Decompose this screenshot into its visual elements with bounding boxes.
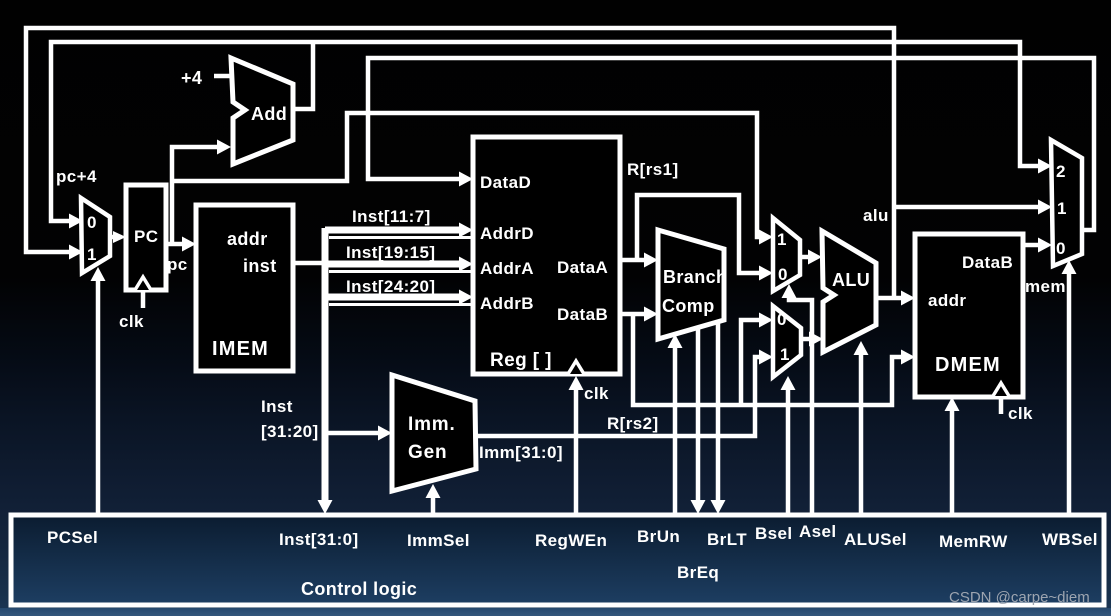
svg-text:Inst[11:7]: Inst[11:7]: [352, 207, 431, 226]
svg-text:ALUSel: ALUSel: [844, 530, 907, 549]
svg-text:PC: PC: [134, 227, 158, 246]
svg-text:BrLT: BrLT: [707, 530, 747, 549]
svg-text:0: 0: [87, 213, 97, 232]
svg-text:Add: Add: [251, 104, 287, 124]
svg-text:PCSel: PCSel: [47, 528, 98, 547]
svg-text:2: 2: [1056, 162, 1066, 181]
svg-text:Imm.: Imm.: [408, 414, 456, 435]
svg-text:clk: clk: [1008, 404, 1033, 423]
svg-text:pc+4: pc+4: [56, 167, 97, 186]
svg-text:1: 1: [1057, 199, 1067, 218]
svg-text:Gen: Gen: [408, 442, 447, 463]
svg-text:AddrD: AddrD: [480, 224, 534, 243]
svg-text:Asel: Asel: [799, 522, 837, 541]
svg-text:addr: addr: [928, 291, 966, 310]
svg-text:mem: mem: [1025, 277, 1066, 296]
svg-text:addr: addr: [227, 229, 268, 249]
svg-text:ALU: ALU: [832, 270, 870, 290]
svg-text:clk: clk: [119, 312, 144, 331]
svg-text:1: 1: [87, 245, 97, 264]
svg-text:BrUn: BrUn: [637, 527, 680, 546]
svg-text:Inst: Inst: [261, 397, 293, 416]
svg-text:RegWEn: RegWEn: [535, 531, 607, 550]
svg-text:R[rs2]: R[rs2]: [607, 414, 659, 433]
svg-text:Comp: Comp: [662, 296, 715, 316]
svg-text:[31:20]: [31:20]: [261, 422, 319, 441]
svg-text:alu: alu: [863, 206, 889, 225]
svg-text:clk: clk: [584, 384, 609, 403]
svg-text:Branch: Branch: [663, 267, 727, 287]
svg-text:+4: +4: [181, 68, 202, 88]
svg-text:Control logic: Control logic: [301, 579, 417, 599]
svg-text:pc: pc: [167, 255, 188, 274]
svg-text:ImmSel: ImmSel: [407, 531, 470, 550]
svg-text:Imm[31:0]: Imm[31:0]: [479, 443, 563, 462]
svg-text:DataD: DataD: [480, 173, 531, 192]
svg-text:DataB: DataB: [557, 305, 608, 324]
svg-text:CSDN @carpe~diem: CSDN @carpe~diem: [949, 589, 1090, 606]
svg-text:1: 1: [777, 230, 787, 249]
svg-text:DMEM: DMEM: [935, 354, 1001, 376]
svg-text:Bsel: Bsel: [755, 524, 793, 543]
svg-text:AddrA: AddrA: [480, 259, 534, 278]
svg-text:Inst[24:20]: Inst[24:20]: [346, 277, 435, 296]
svg-text:BrEq: BrEq: [677, 563, 719, 582]
svg-text:Inst[31:0]: Inst[31:0]: [279, 530, 359, 549]
svg-text:MemRW: MemRW: [939, 532, 1008, 551]
svg-text:0: 0: [1056, 239, 1066, 258]
svg-text:R[rs1]: R[rs1]: [627, 160, 679, 179]
svg-text:1: 1: [780, 345, 790, 364]
svg-text:AddrB: AddrB: [480, 294, 534, 313]
svg-text:DataB: DataB: [962, 253, 1013, 272]
svg-text:inst: inst: [243, 256, 277, 276]
svg-text:0: 0: [777, 310, 787, 329]
svg-text:Inst[19:15]: Inst[19:15]: [346, 243, 435, 262]
svg-text:0: 0: [778, 265, 788, 284]
svg-text:DataA: DataA: [557, 258, 608, 277]
svg-text:IMEM: IMEM: [212, 338, 269, 360]
svg-text:WBSel: WBSel: [1042, 530, 1098, 549]
svg-text:Reg [ ]: Reg [ ]: [490, 350, 552, 371]
